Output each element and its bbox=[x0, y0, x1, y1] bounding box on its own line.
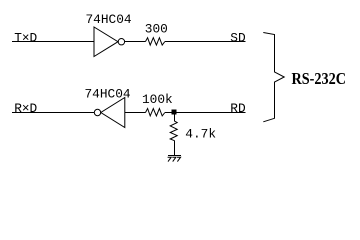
svg-text:T×D: T×D bbox=[14, 31, 37, 46]
wire resistor 100k to junction bbox=[165, 112, 172, 114]
wire RxD from inverter U2 output bbox=[12, 112, 94, 114]
svg-text:RS-232C: RS-232C bbox=[292, 69, 347, 88]
svg-text:SD: SD bbox=[230, 31, 246, 46]
wire TxD to inverter input bbox=[12, 41, 94, 43]
svg-text:4.7k: 4.7k bbox=[185, 127, 216, 142]
junction node dot bbox=[172, 110, 177, 115]
wire junction to RD bbox=[177, 112, 246, 114]
svg-text:RD: RD bbox=[230, 101, 246, 116]
svg-text:74HC04: 74HC04 bbox=[85, 86, 131, 101]
resistor 4.7k bbox=[170, 121, 177, 141]
wire U2 input to resistor 100k bbox=[125, 112, 146, 114]
svg-text:300: 300 bbox=[145, 21, 168, 36]
op-amp U2 inverter 74HC04 triangle (points left) bbox=[101, 98, 125, 128]
svg-text:74HC04: 74HC04 bbox=[86, 12, 132, 27]
svg-text:R×D: R×D bbox=[14, 101, 37, 116]
ground bar bbox=[168, 155, 181, 157]
svg-text:100k: 100k bbox=[142, 92, 173, 107]
wire U1 output to resistor 300 bbox=[125, 41, 146, 43]
ground hatch 2 bbox=[172, 157, 176, 161]
wire junction down to resistor 4.7k bbox=[174, 113, 176, 121]
resistor 100k bbox=[146, 109, 165, 116]
U2 output bubble bbox=[94, 109, 100, 115]
wire resistor 300 to SD bbox=[165, 41, 246, 43]
ground hatch 1 bbox=[177, 157, 181, 161]
U1 output bubble bbox=[118, 39, 124, 45]
op-amp U1 inverter 74HC04 triangle bbox=[94, 27, 118, 57]
wire resistor 4.7k to ground bbox=[174, 141, 176, 156]
brace RS-232C bbox=[263, 33, 284, 122]
resistor 300 bbox=[146, 38, 165, 45]
ground hatch 3 bbox=[168, 157, 172, 161]
